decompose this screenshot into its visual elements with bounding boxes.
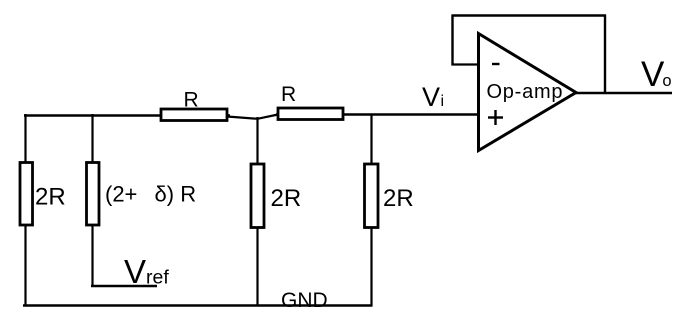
- wire feedback top horizontal: [452, 14, 607, 16]
- wire left branch vertical top: [24, 114, 26, 163]
- resistor 2R right vertical: [365, 164, 379, 228]
- resistor 2R middle vertical: [251, 164, 264, 228]
- svg-text:2R: 2R: [35, 184, 66, 211]
- wire second branch vertical top: [91, 114, 93, 163]
- svg-text:2R: 2R: [383, 185, 414, 212]
- resistor R2 horizontal: [278, 108, 343, 120]
- wire bottom ground rail: [23, 304, 373, 307]
- svg-text:R: R: [184, 89, 199, 112]
- svg-text:2R: 2R: [271, 185, 302, 212]
- wire sag segment at middle junction: [227, 115, 278, 119]
- op-amp U1 triangle: [479, 34, 577, 151]
- wire feedback right vertical: [604, 15, 606, 94]
- svg-text:GND: GND: [281, 289, 328, 312]
- wire feedback left vertical: [451, 15, 453, 66]
- wire fourth branch vertical top: [370, 115, 372, 164]
- wire left branch vertical bottom: [24, 225, 26, 306]
- wire output from op-amp: [574, 92, 672, 94]
- wire fourth branch vertical bottom: [370, 228, 372, 306]
- svg-text:(2+ δ) R: (2+ δ) R: [105, 182, 196, 207]
- wire third branch vertical top: [256, 117, 258, 164]
- wire Vref stub: [91, 285, 157, 287]
- wire top rail left segment: [24, 114, 230, 116]
- op-amp U1 inverting input minus sign: [492, 63, 500, 65]
- op-amp U1 non-inverting input plus sign: [488, 110, 503, 125]
- resistor R1 horizontal: [161, 109, 227, 121]
- wire op-amp inverting input stub: [452, 63, 480, 65]
- resistor 2R leftmost vertical: [20, 163, 33, 226]
- wire third branch vertical bottom: [256, 228, 258, 306]
- svg-text:Op-amp: Op-amp: [487, 81, 564, 103]
- wire top rail right segment to op-amp + input: [276, 113, 478, 115]
- wire second branch vertical bottom to Vref stub: [91, 225, 93, 287]
- svg-text:R: R: [281, 83, 296, 106]
- resistor (2+delta)R vertical: [87, 163, 100, 226]
